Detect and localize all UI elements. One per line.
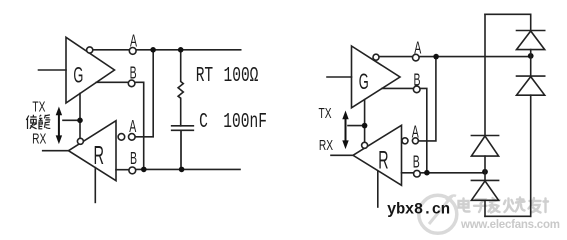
svg-text:TX: TX xyxy=(32,97,45,115)
svg-text:C: C xyxy=(199,111,208,134)
svg-text:www.elecfans.com: www.elecfans.com xyxy=(460,219,560,231)
svg-text:R: R xyxy=(378,148,388,175)
svg-text:A: A xyxy=(129,117,136,136)
svg-text:B: B xyxy=(414,71,421,90)
svg-text:TX: TX xyxy=(319,104,332,122)
svg-text:RX: RX xyxy=(32,130,47,148)
svg-text:A: A xyxy=(414,39,421,58)
svg-text:RX: RX xyxy=(319,136,334,154)
svg-text:G: G xyxy=(359,68,369,94)
svg-text:R: R xyxy=(94,142,105,170)
svg-text:RT: RT xyxy=(196,65,213,88)
svg-text:G: G xyxy=(73,62,83,88)
svg-text:A: A xyxy=(130,32,137,51)
svg-text:100nF: 100nF xyxy=(223,111,267,134)
svg-text:ybx8.cn: ybx8.cn xyxy=(387,201,450,219)
svg-text:B: B xyxy=(130,64,137,83)
svg-text:B: B xyxy=(413,153,420,172)
svg-text:B: B xyxy=(130,150,137,169)
svg-text:100Ω: 100Ω xyxy=(224,65,259,88)
svg-text:A: A xyxy=(412,123,419,142)
